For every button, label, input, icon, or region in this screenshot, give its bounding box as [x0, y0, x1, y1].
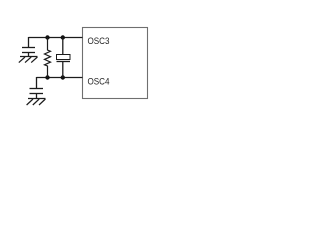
junction node: top wire / crystal [61, 35, 65, 39]
wire: C1 to ground stub [28, 53, 30, 57]
wire: bottom net (OSC4) horizontal [37, 77, 83, 79]
wire: C2 to ground stub [36, 94, 38, 99]
crystal X1 bottom plate [57, 61, 71, 63]
svg-text:OSC3: OSC3 [88, 36, 110, 47]
ground GND2 hatch 1 [27, 99, 33, 105]
crystal X1 lead bottom [62, 62, 64, 78]
svg-text:OSC4: OSC4 [88, 76, 110, 87]
ground GND2 hatch 2 [33, 99, 39, 105]
capacitor C2 top plate [30, 88, 44, 90]
ground GND1 hatch 1 [19, 57, 25, 63]
IC U1 body [83, 28, 148, 99]
ground GND2 bar [28, 98, 46, 100]
ground GND1 bar [20, 56, 38, 58]
ground GND1 hatch 3 [31, 57, 37, 63]
junction node: bottom wire / resistor [45, 75, 49, 79]
wire: bottom-left drop to C2 [36, 77, 38, 89]
ground GND2 hatch 3 [39, 99, 45, 105]
resistor Rf [45, 38, 51, 78]
wire: top-left drop to C1 [28, 37, 30, 48]
junction node: top wire / resistor [45, 35, 49, 39]
capacitor C2 bottom plate [30, 93, 44, 95]
capacitor C1 bottom plate [22, 52, 35, 54]
ground GND1 hatch 2 [25, 57, 31, 63]
capacitor C1 top plate [22, 47, 35, 49]
wire: top net (OSC3) horizontal [29, 37, 83, 39]
crystal X1 body [57, 55, 71, 60]
crystal X1 lead top [62, 38, 64, 55]
junction node: bottom wire / crystal [61, 75, 65, 79]
